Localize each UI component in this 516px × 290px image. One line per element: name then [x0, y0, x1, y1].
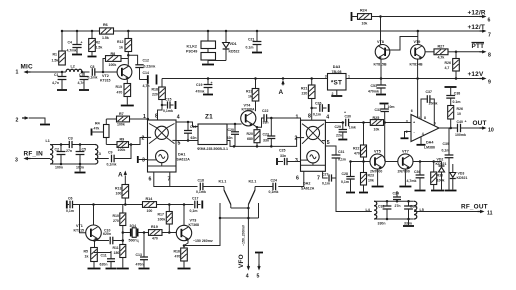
pin 9 +12V	[468, 71, 492, 86]
wire VT3 emitter to relay contacts	[184, 218, 220, 246]
ground (R15)	[121, 105, 134, 107]
ground (R23)	[359, 192, 368, 194]
svg-text:C17: C17	[192, 197, 198, 201]
svg-text:C27: C27	[322, 173, 328, 177]
wire input filter top	[50, 143, 95, 146]
wire (audio to DA1 pin1) / capacitor C14 4,7n	[140, 71, 157, 88]
capacitor C30 1mk (series)	[344, 111, 356, 130]
resistor R9 100k (to DA1 pin2)	[117, 138, 148, 152]
svg-text:DA1: DA1	[178, 153, 185, 157]
wire VT9 emitter to DA4 pin6	[417, 59, 419, 117]
capacitor C33 10mk	[375, 104, 395, 123]
svg-text:0.1m: 0.1m	[246, 46, 254, 50]
svg-text:+: +	[211, 81, 213, 85]
gate line VT5/VT7	[349, 160, 370, 163]
svg-text:10m: 10m	[388, 105, 395, 109]
svg-text:R2: R2	[96, 41, 101, 45]
svg-text:R16: R16	[174, 250, 180, 254]
svg-text:11: 11	[487, 211, 493, 217]
capacitor C37 10mk (gain)	[421, 90, 438, 126]
capacitor C51 470mk	[368, 79, 387, 94]
node collector VT2 / wire	[127, 54, 138, 65]
svg-text:KT815B: KT815B	[374, 63, 388, 67]
svg-text:C34: C34	[393, 192, 399, 196]
svg-text:R5: R5	[84, 250, 89, 254]
svg-text:0,1mk: 0,1mk	[196, 190, 206, 194]
svg-text:R23: R23	[368, 174, 374, 178]
svg-text:100k: 100k	[117, 123, 125, 127]
svg-text:KD521: KD521	[457, 176, 468, 180]
svg-text:6: 6	[488, 18, 491, 24]
svg-text:C23: C23	[263, 133, 269, 137]
svg-text:R14: R14	[146, 197, 154, 201]
svg-text:+: +	[385, 84, 387, 88]
svg-text:C22: C22	[262, 109, 268, 113]
wire output filter bottom	[374, 218, 414, 225]
capacitor C20 82p	[227, 124, 240, 146]
svg-text:78L08: 78L08	[332, 70, 342, 74]
capacitor C36 4,7mk	[407, 162, 425, 190]
relay contact K1.1	[219, 180, 231, 219]
svg-text:0,1m: 0,1m	[190, 209, 198, 213]
resistor R4 47k (trimmer)	[92, 119, 118, 145]
triangle op-amp DA4 LM386	[406, 109, 439, 149]
svg-text:C15: C15	[165, 98, 171, 102]
svg-text:L3: L3	[97, 152, 101, 156]
svg-text:220: 220	[302, 92, 308, 96]
resistor R21 220 (8V rail)	[301, 77, 315, 120]
svg-text:C38: C38	[454, 91, 460, 95]
svg-text:MIC: MIC	[21, 64, 33, 71]
svg-text:1mk: 1mk	[349, 126, 356, 130]
svg-text:10mk: 10mk	[429, 102, 438, 106]
svg-text:0,1m: 0,1m	[442, 149, 450, 153]
svg-text:C9: C9	[108, 151, 113, 155]
svg-text:L1: L1	[46, 139, 50, 143]
svg-text:+12/T: +12/T	[468, 24, 486, 31]
pin 5 VFO ground	[255, 253, 263, 280]
wire DA4 pin2 ground hook	[401, 132, 412, 139]
ground (C19)	[203, 94, 213, 96]
svg-text:VD2: VD2	[437, 158, 444, 162]
wire VT8 base to VT9	[385, 37, 417, 51]
svg-text:0,1mk: 0,1mk	[107, 163, 117, 167]
svg-text:C4: C4	[68, 41, 73, 45]
pin 6 +12/R	[468, 10, 491, 24]
svg-text:2: 2	[142, 136, 145, 142]
wire DA1 pin6 to C18	[154, 172, 198, 187]
resistor R11 180	[113, 245, 126, 268]
inductor L3	[95, 145, 101, 165]
resistor R17 100k	[158, 205, 173, 233]
svg-text:2: 2	[16, 118, 19, 124]
svg-text:R17: R17	[158, 213, 164, 217]
mixer DA2 SA612A	[301, 120, 326, 190]
svg-text:VT5: VT5	[374, 150, 381, 154]
svg-text:10: 10	[457, 112, 461, 116]
svg-text:R15: R15	[116, 85, 122, 89]
svg-text:VT1: VT1	[76, 224, 83, 228]
capacitor C34 27p	[393, 191, 402, 208]
svg-text:100k: 100k	[158, 218, 166, 222]
svg-text:C25: C25	[279, 149, 285, 153]
svg-text:3: 3	[325, 75, 327, 79]
wire +12V line	[346, 77, 480, 80]
svg-text:R26: R26	[457, 107, 463, 111]
ground (C28)	[346, 192, 355, 194]
svg-text:PTT: PTT	[472, 43, 485, 50]
svg-text:C5: C5	[82, 148, 87, 152]
filter Z1 FEM-235-500V-3.1	[197, 114, 228, 151]
svg-text:~150..200mV: ~150..200mV	[242, 224, 246, 246]
svg-text:100k: 100k	[109, 63, 117, 67]
svg-text:Z1: Z1	[205, 114, 213, 121]
DA2 pin labels	[295, 114, 330, 182]
svg-text:R20: R20	[247, 132, 253, 136]
svg-text:220: 220	[152, 93, 158, 97]
svg-text:7: 7	[317, 176, 320, 182]
capacitor C32 330p	[378, 201, 392, 225]
resistor R22 470	[353, 123, 367, 162]
svg-text:A: A	[279, 89, 284, 96]
svg-text:180: 180	[114, 251, 120, 255]
wire VT7 drain to C36	[413, 160, 442, 163]
svg-text:+: +	[413, 121, 415, 125]
svg-text:470mk: 470mk	[368, 90, 379, 94]
wire VT8 emitter to 8V node	[380, 59, 383, 80]
ground (pin 2)	[40, 124, 50, 126]
svg-text:7: 7	[488, 33, 491, 39]
wire DA1 pin 3 stub	[138, 156, 148, 163]
svg-text:C30: C30	[345, 115, 351, 119]
wire relay common to VFO	[219, 205, 259, 266]
resistor R2 1.5k	[89, 30, 103, 56]
svg-text:33n: 33n	[280, 154, 286, 158]
ground (R2)	[88, 56, 97, 58]
wire DA2 pin6 to C24	[278, 171, 304, 186]
ground (relay coils)	[202, 64, 214, 66]
svg-text:330n: 330n	[404, 222, 412, 226]
wire DA1 pin1 riser	[147, 84, 150, 120]
capacitor C24 0,1mk (series)	[269, 179, 279, 195]
capacitor C5 100p	[76, 145, 86, 170]
svg-text:R27: R27	[438, 44, 445, 48]
svg-text:6: 6	[411, 109, 413, 113]
label VFO	[238, 224, 246, 268]
capacitor C3 27p (series top)	[66, 137, 73, 153]
svg-text:C11: C11	[101, 254, 107, 258]
pin 10 OUT	[473, 120, 494, 134]
svg-text:R18: R18	[152, 88, 158, 92]
svg-text:R26: R26	[445, 61, 451, 65]
svg-text:ΦЭM-235-500B-3.1: ΦЭM-235-500B-3.1	[197, 147, 228, 151]
svg-text:27n: 27n	[395, 204, 401, 208]
diode VD3 KD521	[450, 164, 468, 190]
svg-text:OUT: OUT	[473, 120, 487, 127]
svg-text:8: 8	[308, 114, 311, 120]
ground (R11)	[117, 268, 129, 270]
transistor VT5 2N7000	[370, 150, 385, 174]
svg-text:VT2: VT2	[102, 74, 109, 78]
svg-text:33n: 33n	[263, 139, 269, 143]
wire C18 to K1.1	[203, 186, 224, 188]
pin 7 +12/T	[468, 24, 492, 39]
capacitor C39 0,1mk	[442, 128, 454, 190]
wire output filter top	[374, 200, 414, 203]
ground (input filter)	[75, 172, 86, 174]
ground (C36)	[415, 190, 426, 192]
pin 4 VFO	[246, 265, 250, 280]
svg-text:0,1m: 0,1m	[313, 113, 321, 117]
svg-text:DA4: DA4	[426, 141, 434, 145]
inductor L1	[46, 139, 53, 164]
wire DA1 pin 8 lead	[158, 105, 163, 120]
svg-text:K1,K2: K1,K2	[187, 45, 197, 49]
capacitor C26 0,1mk (DA2 pin8)	[310, 102, 328, 117]
svg-text:KD522: KD522	[229, 50, 240, 54]
svg-text:27n: 27n	[66, 149, 72, 153]
ground (C13)	[139, 268, 150, 270]
wire R25 to DA4 pin3	[383, 121, 411, 124]
svg-text:2N7000: 2N7000	[398, 170, 410, 174]
svg-text:C12: C12	[143, 59, 149, 63]
svg-text:RF_IN: RF_IN	[24, 151, 44, 158]
svg-text:VT8: VT8	[377, 40, 384, 44]
svg-text:0,1mk: 0,1mk	[88, 76, 98, 80]
svg-text:C19: C19	[196, 83, 202, 87]
pin 3 RF_IN input	[15, 151, 43, 164]
svg-text:DA3: DA3	[333, 65, 340, 69]
ground (C29)	[338, 139, 347, 141]
svg-text:R13: R13	[115, 187, 121, 191]
ground (R30,VD2)	[431, 190, 444, 192]
svg-text:100: 100	[116, 192, 122, 196]
transistor VT1 KT315	[74, 205, 102, 241]
ground (R16)	[178, 268, 191, 270]
resistor R24 10k	[352, 9, 381, 26]
transistor VT7 2N7000	[398, 150, 414, 174]
svg-text:100k: 100k	[437, 179, 445, 183]
mixer DA1 SA612A	[148, 120, 191, 172]
svg-text:1: 1	[296, 114, 299, 120]
svg-text:R30: R30	[437, 174, 443, 178]
svg-text:C33: C33	[375, 108, 381, 112]
svg-text:C29: C29	[335, 125, 341, 129]
wire VT4 collector	[0, 0, 1, 1]
wire DA1 pin 5 out	[176, 140, 198, 142]
svg-text:+: +	[344, 111, 346, 115]
svg-text:82n: 82n	[227, 136, 233, 140]
resistor R19b 470 (VT3 base)	[149, 225, 177, 241]
svg-text:R19: R19	[246, 90, 252, 94]
svg-text:22n: 22n	[336, 134, 342, 138]
ground (DA3 pin 2)	[331, 90, 342, 96]
svg-text:1: 1	[16, 70, 19, 76]
relay contact K2.1	[248, 180, 258, 219]
svg-text:47k: 47k	[94, 127, 100, 131]
svg-text:RF_OUT: RF_OUT	[461, 204, 488, 211]
wire DA2 pin4 output	[325, 121, 344, 124]
resistor R7 100k (to DA1 pin1)	[106, 112, 148, 127]
svg-text:SA612A: SA612A	[177, 158, 191, 162]
svg-text:5: 5	[257, 274, 260, 280]
ground (VT5 source)	[372, 169, 384, 186]
wire DA2 pin7 via C27	[322, 171, 336, 185]
svg-text:R8: R8	[111, 52, 116, 56]
capacitor C40 100mk (series out)	[455, 120, 480, 138]
svg-text:4: 4	[326, 114, 329, 120]
resistor R12 1k	[117, 30, 132, 55]
svg-text:R1: R1	[53, 53, 58, 57]
svg-text:C31: C31	[338, 150, 344, 154]
svg-text:~150 260mv: ~150 260mv	[193, 239, 213, 243]
svg-text:KT315: KT315	[74, 229, 85, 233]
svg-text:VFO: VFO	[238, 254, 245, 268]
svg-text:2: 2	[295, 136, 298, 142]
wire input filter bottom	[50, 163, 95, 172]
svg-text:4: 4	[246, 274, 249, 280]
svg-text:4,7mk: 4,7mk	[407, 179, 417, 183]
svg-text:C8: C8	[90, 65, 95, 69]
svg-text:SA612A: SA612A	[301, 187, 315, 191]
svg-text:1.5k: 1.5k	[102, 36, 109, 40]
resistor R26 4,7k	[445, 52, 460, 79]
voltage regulator DA3 78L08 *ST	[325, 65, 350, 96]
svg-text:3: 3	[15, 158, 18, 164]
capacitor C25 33n (DA2 pin3)	[277, 149, 301, 166]
transistor VT9 KT814	[410, 30, 426, 67]
resistor R19 1k (VT4 collector load)	[246, 77, 259, 111]
wire MIC line	[31, 71, 118, 74]
svg-text:10k: 10k	[368, 179, 374, 183]
svg-text:1.5k: 1.5k	[96, 46, 103, 50]
wire VT1 base tap	[80, 205, 86, 233]
svg-text:C18: C18	[198, 179, 204, 183]
svg-text:1k: 1k	[85, 255, 89, 259]
capacitor C18 0,1mk (series)	[196, 179, 206, 195]
inductor L4 (output filter)	[366, 201, 377, 219]
svg-text:6: 6	[149, 177, 152, 183]
ground (C11)	[106, 268, 117, 270]
resistor R16 470 (VT3 emitter)	[174, 239, 189, 268]
capacitor C29 22n	[335, 123, 348, 139]
transistor VT2 KT315	[100, 65, 132, 83]
pin 2 ground input	[16, 116, 46, 123]
svg-text:5: 5	[178, 141, 181, 147]
svg-text:0,1mk: 0,1mk	[269, 190, 279, 194]
svg-text:4,7k: 4,7k	[438, 56, 445, 60]
svg-text:R6: R6	[103, 23, 108, 27]
svg-text:+: +	[81, 41, 83, 45]
svg-text:470n: 470n	[136, 263, 144, 267]
ground (R5)	[88, 268, 101, 270]
wire DA4 pin4 stub	[417, 137, 426, 145]
svg-text:100k: 100k	[118, 148, 126, 152]
ground (C4)	[72, 54, 82, 56]
capacitor C9 0,1mk (series)	[107, 151, 117, 167]
svg-text:C32: C32	[378, 205, 384, 209]
svg-text:R11: R11	[113, 246, 119, 250]
svg-text:10k: 10k	[362, 22, 368, 26]
pin 1 MIC input	[16, 64, 33, 76]
svg-text:500Гц: 500Гц	[129, 239, 140, 243]
node A (bias feed)	[118, 171, 127, 185]
svg-text:C3: C3	[68, 137, 73, 141]
svg-text:4,7n: 4,7n	[52, 81, 59, 85]
svg-text:8: 8	[155, 114, 158, 120]
resistor R8 100k (bias)	[103, 52, 128, 72]
resistor R14 100	[143, 197, 194, 213]
svg-text:VD1: VD1	[230, 42, 237, 46]
wire VT5 drain to R25 node	[385, 123, 398, 162]
svg-text:C1: C1	[54, 73, 59, 77]
svg-text:C16: C16	[190, 125, 196, 129]
ground (C39,VD3)	[445, 190, 457, 192]
svg-text:33n: 33n	[263, 121, 269, 125]
svg-text:4,7n: 4,7n	[78, 81, 85, 85]
capacitor C8 0,1mk (series)	[88, 65, 98, 80]
resistor R18 220 (DA1 pin8 feed)	[152, 79, 166, 106]
svg-text:C28: C28	[342, 172, 348, 176]
svg-text:680: 680	[247, 137, 253, 141]
svg-text:3Q4: 3Q4	[130, 224, 137, 228]
pin 8 PTT	[455, 43, 491, 59]
resistor R6 1.5k (in top rail)	[100, 23, 114, 40]
svg-text:A: A	[118, 172, 123, 179]
svg-text:4,7n: 4,7n	[143, 84, 150, 88]
resistor R1 1.5k	[52, 30, 66, 65]
svg-text:0.22mk: 0.22mk	[144, 65, 156, 69]
svg-text:P3C49: P3C49	[186, 50, 197, 54]
wire Z1 out top to VT4 base	[227, 123, 242, 126]
svg-text:0,1m: 0,1m	[322, 182, 330, 186]
svg-text:0,1m: 0,1m	[341, 180, 349, 184]
svg-text:C40: C40	[457, 120, 463, 124]
svg-text:6: 6	[296, 176, 299, 182]
svg-text:1k: 1k	[119, 46, 123, 50]
capacitor C21 0.1mk	[246, 30, 262, 52]
wire C24 to K2.1	[255, 186, 273, 188]
svg-text:10: 10	[488, 128, 494, 134]
svg-text:L2: L2	[71, 65, 75, 69]
svg-text:470: 470	[117, 91, 123, 95]
svg-text:9: 9	[488, 80, 491, 86]
svg-text:10k: 10k	[374, 128, 380, 132]
svg-text:C37: C37	[426, 90, 432, 94]
svg-text:0,1m: 0,1m	[66, 209, 74, 213]
resistor R27 4,7k	[425, 44, 456, 59]
node A to 8V rail	[279, 77, 285, 96]
svg-text:2N7000: 2N7000	[370, 170, 382, 174]
svg-text:270: 270	[113, 219, 119, 223]
wire +8V rail from DA3	[162, 78, 328, 80]
capacitor C10 620n (series)	[95, 229, 123, 245]
capacitor C17 0,1mk	[190, 197, 203, 213]
svg-text:C36: C36	[414, 170, 420, 174]
svg-text:8: 8	[488, 53, 491, 59]
svg-text:1k: 1k	[248, 95, 252, 99]
ground (VT7 source)	[399, 169, 411, 186]
svg-text:R12: R12	[117, 40, 123, 44]
wire C9 to DA1 pin2 node	[114, 143, 132, 158]
capacitor C15 0,1mk (pin8 decoupling)	[161, 98, 176, 114]
svg-text:R21: R21	[301, 87, 307, 91]
resistor R25 10k	[370, 116, 383, 132]
svg-text:R24: R24	[360, 9, 368, 13]
svg-text:1: 1	[143, 114, 146, 120]
wire DA1 pin 4 out	[176, 121, 198, 127]
DA1 pin labels	[142, 114, 181, 183]
